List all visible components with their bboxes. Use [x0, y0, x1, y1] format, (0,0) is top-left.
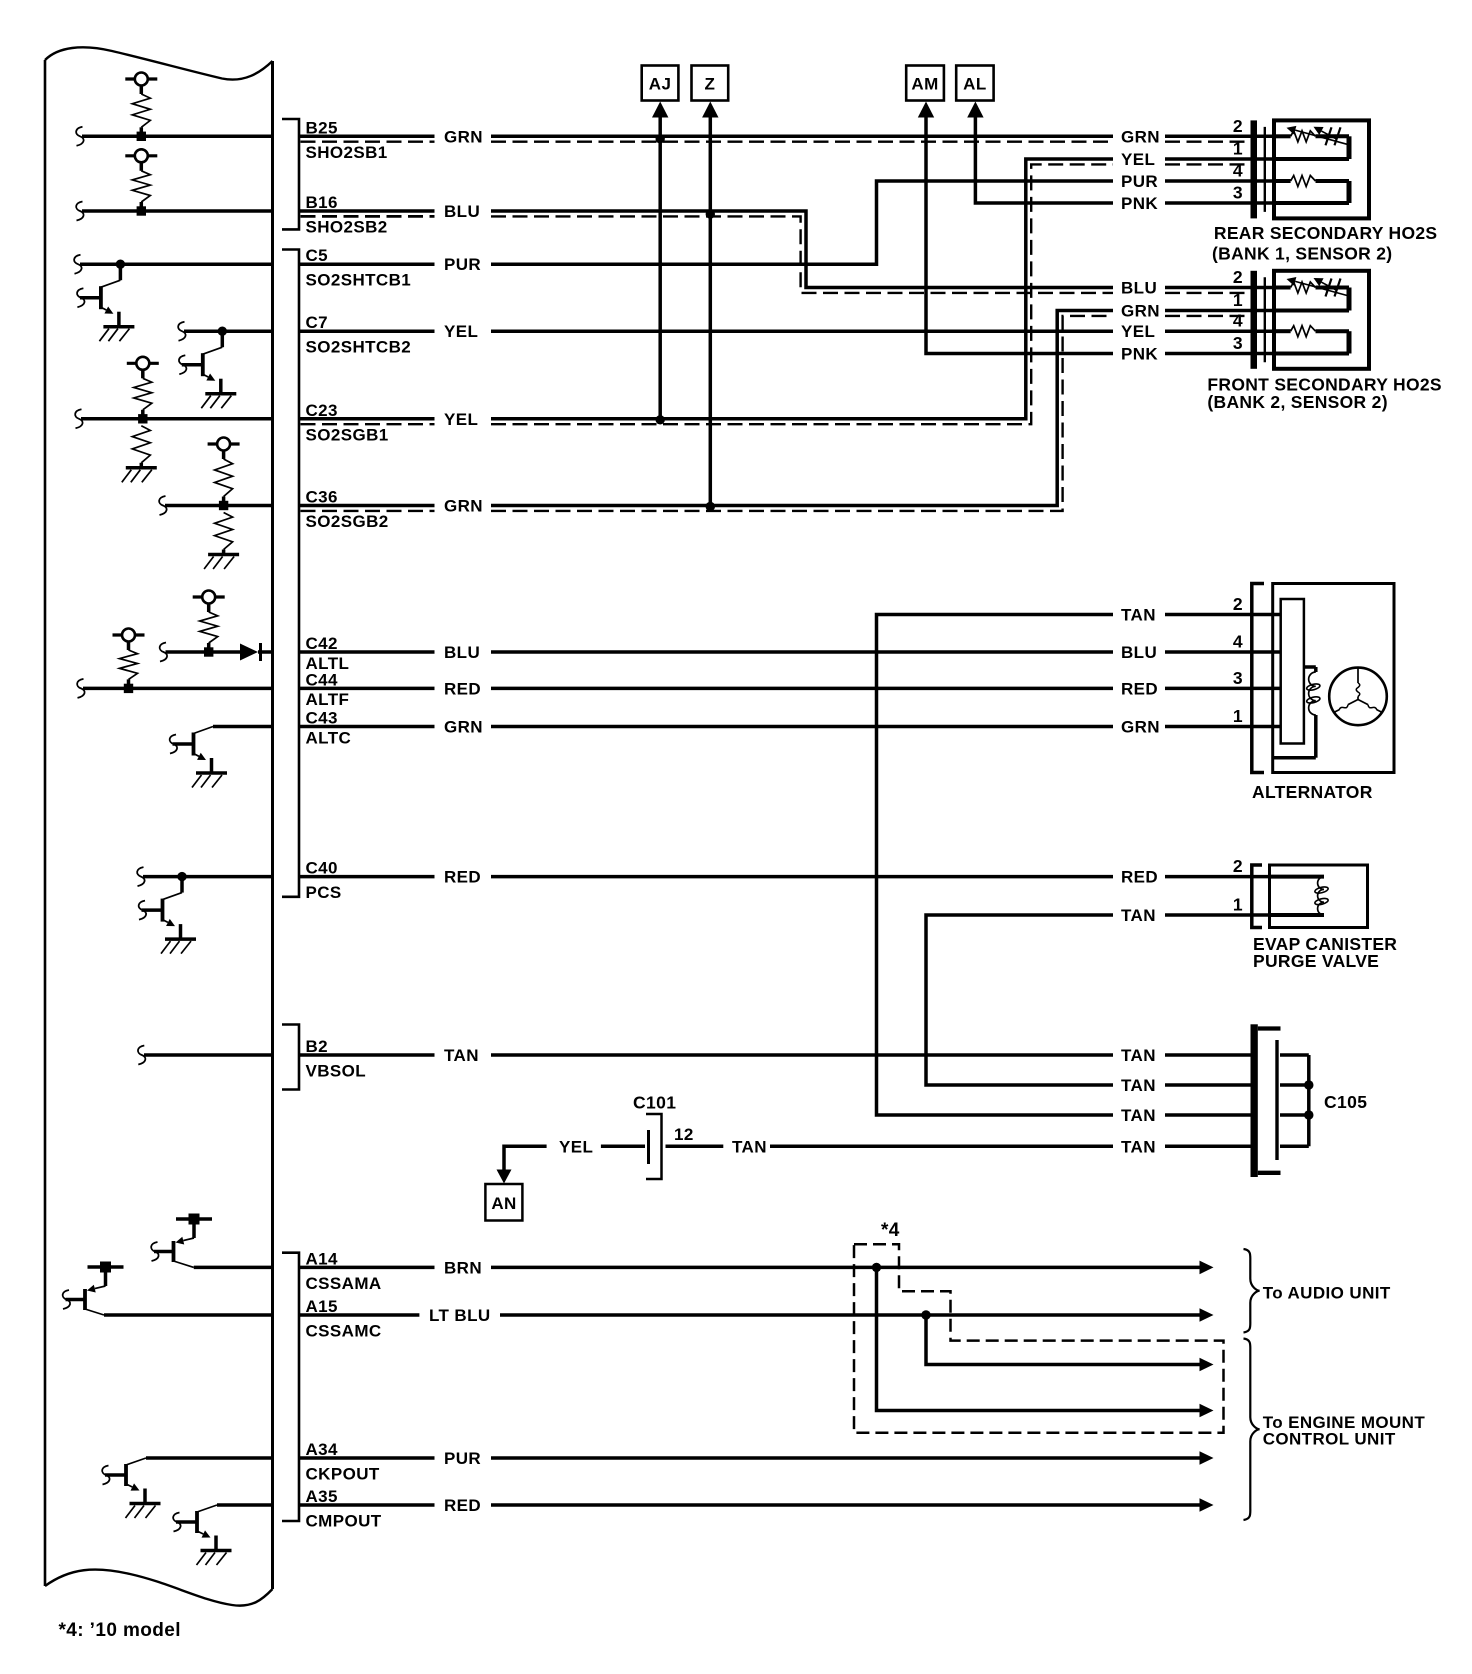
- svg-text:RED: RED: [1121, 679, 1158, 698]
- svg-text:C23: C23: [306, 401, 338, 420]
- svg-text:REAR SECONDARY HO2S: REAR SECONDARY HO2S: [1214, 223, 1438, 243]
- svg-text:PUR: PUR: [444, 255, 481, 274]
- svg-text:B25: B25: [306, 118, 338, 137]
- svg-text:GRN: GRN: [444, 718, 483, 737]
- svg-text:CONTROL UNIT: CONTROL UNIT: [1263, 1430, 1396, 1449]
- svg-text:A35: A35: [306, 1487, 338, 1506]
- svg-text:1: 1: [1233, 290, 1243, 310]
- svg-text:2: 2: [1233, 267, 1243, 287]
- svg-text:Z: Z: [704, 75, 715, 94]
- svg-text:TAN: TAN: [732, 1137, 767, 1156]
- svg-text:VBSOL: VBSOL: [306, 1062, 367, 1081]
- svg-text:C101: C101: [633, 1092, 676, 1112]
- svg-text:SHO2SB1: SHO2SB1: [306, 143, 388, 162]
- svg-text:3: 3: [1233, 183, 1243, 203]
- svg-text:GRN: GRN: [444, 127, 483, 146]
- svg-text:C43: C43: [306, 709, 338, 728]
- svg-text:LT BLU: LT BLU: [429, 1306, 491, 1325]
- svg-text:YEL: YEL: [1121, 322, 1155, 341]
- svg-text:AJ: AJ: [649, 75, 672, 94]
- svg-text:BLU: BLU: [444, 202, 480, 221]
- svg-text:C36: C36: [306, 488, 338, 507]
- svg-text:2: 2: [1233, 856, 1243, 876]
- svg-text:C40: C40: [306, 859, 338, 878]
- svg-text:TAN: TAN: [1121, 1137, 1156, 1156]
- svg-text:BLU: BLU: [1121, 643, 1157, 662]
- svg-text:BLU: BLU: [444, 643, 480, 662]
- svg-text:2: 2: [1233, 594, 1243, 614]
- svg-text:1: 1: [1233, 139, 1243, 159]
- svg-text:RED: RED: [444, 1496, 481, 1515]
- svg-text:*4: ’10 model: *4: ’10 model: [59, 1620, 181, 1641]
- svg-text:1: 1: [1233, 895, 1243, 915]
- svg-text:4: 4: [1233, 311, 1243, 331]
- svg-text:PUR: PUR: [1121, 172, 1158, 191]
- svg-text:GRN: GRN: [1121, 127, 1160, 146]
- svg-text:C44: C44: [306, 670, 339, 689]
- svg-text:PCS: PCS: [306, 883, 342, 902]
- svg-text:YEL: YEL: [444, 322, 478, 341]
- svg-text:SO2SGB1: SO2SGB1: [306, 425, 389, 444]
- svg-text:C42: C42: [306, 634, 338, 653]
- svg-text:TAN: TAN: [1121, 1106, 1156, 1125]
- svg-text:C5: C5: [306, 246, 329, 265]
- svg-text:AL: AL: [963, 75, 986, 94]
- svg-text:A14: A14: [306, 1249, 339, 1268]
- svg-text:CSSAMC: CSSAMC: [306, 1322, 382, 1341]
- svg-text:RED: RED: [1121, 868, 1158, 887]
- svg-text:PUR: PUR: [444, 1449, 481, 1468]
- svg-text:B16: B16: [306, 193, 338, 212]
- svg-text:(BANK 2, SENSOR 2): (BANK 2, SENSOR 2): [1207, 392, 1387, 412]
- svg-text:YEL: YEL: [444, 410, 478, 429]
- svg-text:GRN: GRN: [444, 497, 483, 516]
- svg-text:ALTF: ALTF: [306, 690, 350, 709]
- svg-text:CSSAMA: CSSAMA: [306, 1274, 382, 1293]
- svg-text:B2: B2: [306, 1037, 329, 1056]
- svg-text:TAN: TAN: [1121, 906, 1156, 925]
- svg-text:BLU: BLU: [1121, 279, 1157, 298]
- svg-text:To AUDIO UNIT: To AUDIO UNIT: [1263, 1284, 1391, 1303]
- svg-text:ALTERNATOR: ALTERNATOR: [1252, 782, 1373, 802]
- svg-text:AN: AN: [491, 1194, 516, 1213]
- svg-text:(BANK 1, SENSOR 2): (BANK 1, SENSOR 2): [1212, 244, 1392, 264]
- svg-text:SO2SGB2: SO2SGB2: [306, 512, 389, 531]
- svg-text:CKPOUT: CKPOUT: [306, 1465, 380, 1484]
- svg-text:A34: A34: [306, 1440, 339, 1459]
- svg-text:PURGE VALVE: PURGE VALVE: [1253, 951, 1379, 971]
- svg-text:A15: A15: [306, 1297, 338, 1316]
- svg-text:SO2SHTCB1: SO2SHTCB1: [306, 271, 412, 290]
- svg-text:TAN: TAN: [1121, 1046, 1156, 1065]
- svg-text:SHO2SB2: SHO2SB2: [306, 218, 388, 237]
- svg-text:SO2SHTCB2: SO2SHTCB2: [306, 338, 412, 357]
- svg-text:2: 2: [1233, 116, 1243, 136]
- svg-text:CMPOUT: CMPOUT: [306, 1512, 382, 1531]
- svg-text:YEL: YEL: [559, 1137, 593, 1156]
- svg-text:TAN: TAN: [1121, 1076, 1156, 1095]
- svg-text:1: 1: [1233, 706, 1243, 726]
- svg-text:GRN: GRN: [1121, 718, 1160, 737]
- svg-text:AM: AM: [911, 75, 938, 94]
- svg-text:3: 3: [1233, 668, 1243, 688]
- svg-text:TAN: TAN: [1121, 606, 1156, 625]
- svg-text:PNK: PNK: [1121, 345, 1158, 364]
- svg-text:RED: RED: [444, 868, 481, 887]
- svg-text:4: 4: [1233, 632, 1243, 652]
- svg-text:BRN: BRN: [444, 1258, 482, 1277]
- svg-text:PNK: PNK: [1121, 194, 1158, 213]
- svg-text:TAN: TAN: [444, 1046, 479, 1065]
- svg-text:YEL: YEL: [1121, 150, 1155, 169]
- svg-text:RED: RED: [444, 679, 481, 698]
- svg-text:C7: C7: [306, 313, 329, 332]
- svg-text:*4: *4: [881, 1220, 900, 1241]
- svg-text:ALTC: ALTC: [306, 728, 352, 747]
- svg-text:4: 4: [1233, 161, 1243, 181]
- svg-text:12: 12: [674, 1125, 694, 1144]
- svg-text:C105: C105: [1324, 1092, 1367, 1112]
- svg-text:GRN: GRN: [1121, 302, 1160, 321]
- svg-text:3: 3: [1233, 333, 1243, 353]
